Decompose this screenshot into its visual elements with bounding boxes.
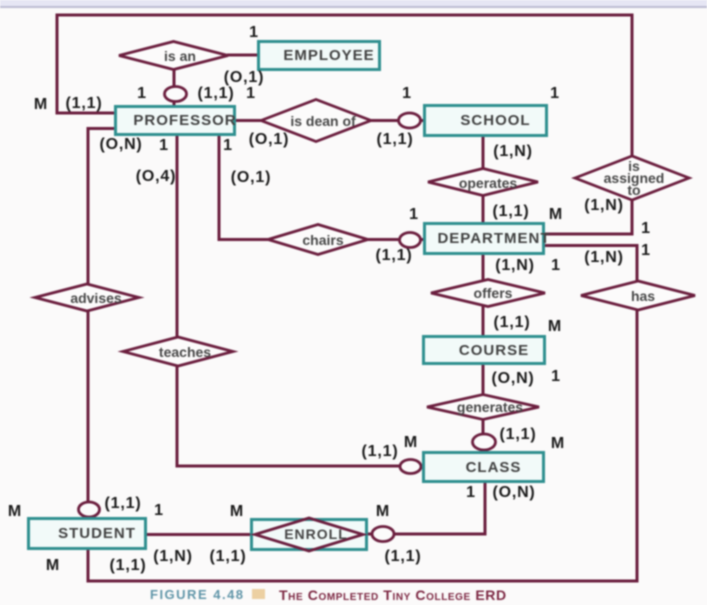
label 1 top-right of SCHOOL: [550, 85, 560, 103]
relationship name teaches: [159, 346, 211, 358]
label M top-left of CLASS: [404, 434, 418, 452]
relationship is dean of: [261, 100, 371, 142]
label M left of ENROLL: [230, 503, 244, 521]
label M top-left of STUDENT: [8, 503, 22, 521]
label (1,N) SCHOOL-operates: [493, 143, 533, 161]
relationship offers: [431, 280, 545, 307]
relationship name is assigned to: [604, 160, 665, 196]
entity EMPLOYEE: [257, 40, 381, 71]
wire SCHOOL - operates - DEPARTMENT: [482, 137, 485, 222]
relationship advises: [35, 284, 139, 311]
wire DEPARTMENT - offers - COURSE: [482, 255, 485, 335]
wire CLASS - ENROLL circle: [368, 483, 485, 534]
label 1 above EMPLOYEE: [249, 24, 259, 42]
label 1 left of circle above PROFESSOR: [137, 85, 147, 103]
relationship name is dean of: [290, 115, 355, 127]
label (1,1) right of circle above PROFESSOR: [198, 85, 235, 103]
label 1 right of is assigned corner: [641, 220, 651, 238]
label 1 below CLASS: [466, 484, 476, 502]
wire has - bottom - STUDENT bottom: [88, 308, 637, 581]
label (O,1) below EMPLOYEE: [224, 69, 264, 87]
caption figure number: [150, 587, 245, 602]
label 1 above circle left of DEPARTMENT: [409, 206, 419, 224]
label 1 DEPARTMENT-has line: [641, 242, 651, 260]
label (1,N) DEPARTMENT-offers: [495, 257, 535, 275]
entity STUDENT: [27, 517, 147, 550]
label M above ENROLL circle: [376, 503, 390, 521]
label 1 below PROFESSOR teaches: [159, 137, 169, 155]
optionality circle left of SCHOOL: [399, 113, 421, 128]
entity COURSE: [422, 335, 546, 365]
wire PROFESSOR - is dean of - SCHOOL: [236, 119, 423, 122]
entity SCHOOL: [423, 104, 548, 137]
label (1,1) left of SCHOOL: [377, 131, 414, 149]
relationship operates: [428, 169, 538, 196]
wire PROFESSOR - advises - STUDENT top: [88, 129, 114, 518]
label M below STUDENT: [46, 557, 60, 575]
wire DEPARTMENT - has: [545, 246, 637, 284]
wire PROFESSOR - teaches - CLASS: [177, 136, 422, 466]
relationship name is an: [164, 50, 196, 62]
wire is assigned to - DEPARTMENT: [545, 198, 632, 234]
entity ENROLL container: [250, 518, 368, 551]
label (1,N) below is assigned to: [584, 197, 624, 215]
label 1 right of DEPARTMENT-offers: [551, 257, 561, 275]
label (1,1) below STUDENT bottom: [110, 557, 147, 575]
wire is an - EMPLOYEE: [227, 54, 258, 57]
optionality circle above STUDENT: [79, 502, 100, 517]
label 1 right of COURSE-generates: [551, 368, 561, 386]
wire is an - circle - PROFESSOR top: [173, 68, 176, 105]
wire PROFESSOR - chairs - DEPARTMENT: [219, 136, 423, 240]
label 1 top-right of STUDENT: [154, 502, 164, 520]
relationship has: [581, 281, 695, 310]
optionality circle above PROFESSOR: [165, 87, 187, 102]
relationship generates: [427, 395, 539, 420]
optionality circle right of ENROLL: [372, 527, 394, 542]
label 1 top-right of is dean of: [402, 85, 412, 103]
label (1,1) above STUDENT: [105, 495, 142, 513]
relationship name ENROLL: [284, 528, 348, 540]
label (O,1) chairs line: [231, 169, 271, 187]
label (O,N) COURSE-generates: [491, 370, 534, 388]
optionality circle left of CLASS: [400, 460, 421, 474]
wire STUDENT - ENROLL: [147, 533, 250, 536]
relationship name has: [631, 290, 655, 302]
label (1,1) below ENROLL left: [210, 548, 247, 566]
label M top-right of CLASS: [551, 435, 565, 453]
label (O,N) below PROFESSOR left: [99, 136, 142, 154]
label M on outer loop: [34, 96, 48, 114]
label (1,1) generates circle: [500, 426, 537, 444]
label (O,N) below CLASS: [492, 484, 535, 502]
relationship name offers: [474, 287, 513, 299]
label (1,N) below STUDENT right: [153, 548, 193, 566]
entity DEPARTMENT: [423, 222, 545, 255]
optionality circle above CLASS: [473, 434, 496, 450]
relationship chairs: [268, 225, 368, 255]
wire COURSE - generates - CLASS: [482, 365, 485, 451]
entity CLASS: [422, 451, 545, 483]
relationship is an: [119, 42, 228, 70]
label (1,1) left of PROFESSOR: [66, 95, 103, 113]
label (1,1) teaches circle: [362, 443, 399, 461]
relationship name operates: [459, 177, 517, 189]
entity PROFESSOR: [114, 105, 236, 136]
caption square bullet: [252, 589, 265, 599]
label (1,N) DEPARTMENT-has: [584, 249, 624, 267]
label (1,1) operates-DEPARTMENT: [493, 203, 530, 221]
relationship is assigned to: [575, 156, 689, 200]
relationship name advises: [70, 292, 121, 304]
label 1 below PROFESSOR chairs: [223, 137, 233, 155]
caption title: [279, 587, 507, 603]
wire PROFESSOR - top loop - is assigned to: [57, 15, 632, 160]
label M top-right of COURSE: [548, 318, 562, 336]
optionality circle left of DEPARTMENT: [400, 233, 421, 248]
relationship name chairs: [302, 234, 343, 246]
relationship teaches: [123, 337, 233, 366]
label (1,1) below ENROLL circle: [385, 548, 422, 566]
label M top-right of DEPARTMENT: [549, 206, 563, 224]
relationship name generates: [457, 401, 523, 413]
label (O,4) teaches line: [136, 168, 176, 186]
top window bar: [0, 0, 707, 6]
label (1,1) offers-COURSE: [494, 314, 531, 332]
label (O,1) below is dean of: [249, 131, 289, 149]
label 1 top-left of is dean of: [246, 85, 256, 103]
label (1,1) chairs circle: [376, 247, 413, 265]
